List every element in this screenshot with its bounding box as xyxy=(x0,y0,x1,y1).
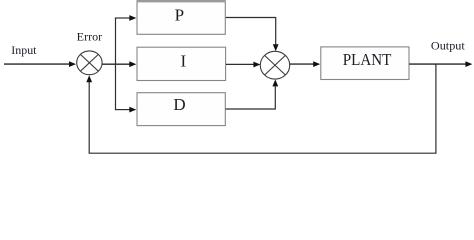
wire P output to J2 top xyxy=(226,18,276,46)
wire I output to J2 left xyxy=(226,63,254,65)
branch vertical wire xyxy=(115,18,117,110)
wire J1 to I block xyxy=(102,63,130,65)
wire branch to D block xyxy=(115,109,130,111)
arrowhead into J2 bottom xyxy=(272,79,278,86)
block D xyxy=(137,93,225,126)
svg-text:D: D xyxy=(173,95,185,114)
arrowhead into P block xyxy=(129,15,136,21)
svg-text:Error: Error xyxy=(77,29,103,43)
svg-text:Input: Input xyxy=(11,43,37,57)
wire J2 to PLANT xyxy=(290,63,314,65)
arrowhead into J2 left xyxy=(253,62,260,68)
svg-text:PLANT: PLANT xyxy=(343,50,392,69)
arrowhead into J2 top xyxy=(273,44,279,51)
svg-text:P: P xyxy=(175,6,184,25)
arrowhead into J1 left xyxy=(69,61,76,67)
arrowhead into PLANT xyxy=(313,61,320,67)
wire PLANT to output xyxy=(409,63,466,65)
svg-text:Output: Output xyxy=(431,38,466,52)
summing junction J1 xyxy=(77,51,102,75)
svg-text:I: I xyxy=(180,52,186,71)
block I xyxy=(137,47,226,80)
arrowhead feedback into J1 bottom xyxy=(86,75,92,82)
block P xyxy=(137,1,225,34)
wire D output to J2 bottom xyxy=(226,86,276,109)
wire input to J1 xyxy=(4,63,70,65)
block P top highlight xyxy=(137,0,226,2)
feedback wire xyxy=(89,64,436,153)
arrowhead output xyxy=(465,61,472,67)
block PLANT xyxy=(321,47,409,80)
summing junction J2 xyxy=(260,51,289,79)
arrowhead into D block xyxy=(129,107,136,113)
wire branch to P block xyxy=(115,17,131,19)
arrowhead into I block xyxy=(129,61,136,67)
